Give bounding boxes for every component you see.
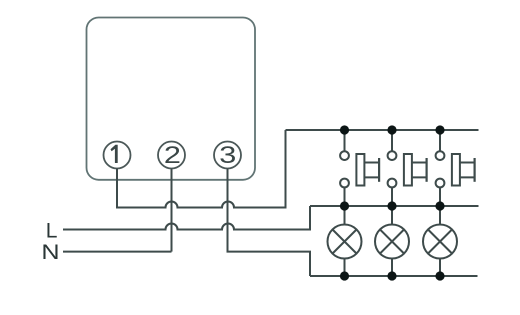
wire from terminal 2 down to N bbox=[171, 169, 173, 252]
lamp E3 bbox=[423, 206, 457, 276]
wire from terminal 3 to bottom bus bbox=[228, 169, 311, 277]
lamp E1 bbox=[328, 206, 362, 276]
junction dot bottom bus / E3 bbox=[435, 271, 444, 280]
junction dot middle bus / E2 bbox=[387, 201, 396, 210]
pushbutton S1 bbox=[340, 130, 379, 206]
svg-text:N: N bbox=[41, 240, 59, 264]
top bus wire bbox=[286, 129, 479, 131]
junction dot middle bus / E3 bbox=[435, 201, 444, 210]
middle bus wire bbox=[310, 205, 479, 207]
terminal 3 bbox=[214, 141, 241, 169]
junction dot top bus / S1 bbox=[340, 125, 349, 134]
junction dot middle bus / E1 bbox=[340, 201, 349, 210]
wire from terminal 1 to top bus (hops over wires 2 and 3) bbox=[117, 130, 286, 208]
terminal 1 bbox=[104, 142, 131, 169]
junction dot top bus / S2 bbox=[387, 125, 396, 134]
junction dot bottom bus / E2 bbox=[387, 271, 396, 280]
pushbutton S2 bbox=[388, 130, 427, 206]
lamp E2 bbox=[375, 206, 409, 276]
svg-text:2: 2 bbox=[164, 141, 181, 168]
junction dot top bus / S3 bbox=[435, 125, 444, 134]
pushbutton S3 bbox=[436, 130, 475, 206]
svg-text:3: 3 bbox=[219, 141, 236, 168]
junction dot bottom bus / E1 bbox=[340, 271, 349, 280]
N wire bbox=[63, 251, 172, 253]
device box U1 bbox=[87, 18, 256, 180]
L wire (hops over wires 2 and 3) bbox=[63, 206, 310, 230]
bottom bus wire bbox=[310, 275, 478, 277]
terminal 2 bbox=[158, 141, 185, 169]
